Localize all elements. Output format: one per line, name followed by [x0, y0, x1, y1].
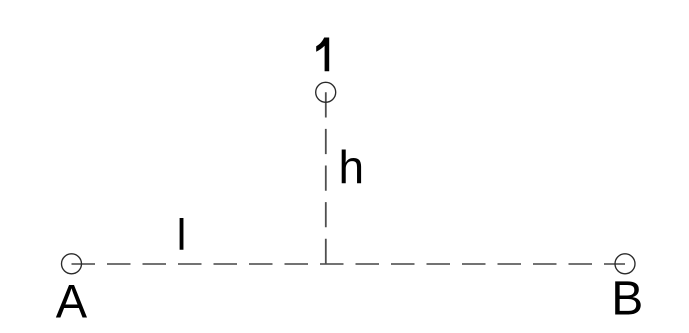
svg-text:h: h [339, 141, 365, 193]
svg-text:A: A [56, 275, 88, 328]
svg-text:l: l [177, 211, 187, 260]
node B circle [615, 254, 635, 274]
node A circle [62, 254, 82, 274]
wire: horizontal dashed line A-B [72, 263, 626, 265]
svg-text:B: B [611, 273, 643, 326]
node 1 circle [316, 82, 336, 102]
wire: vertical dashed line from node 1 down to midpoint of A-B [325, 92, 327, 264]
label 1 [316, 38, 329, 72]
